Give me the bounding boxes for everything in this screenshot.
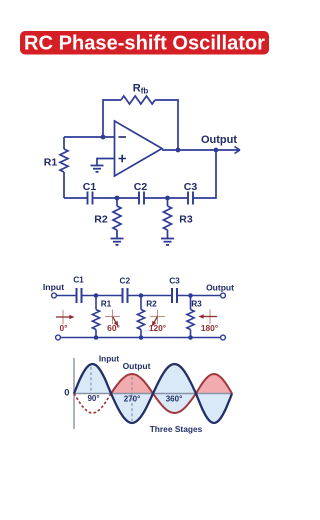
svg-text:90°: 90° <box>87 394 99 403</box>
svg-text:60°: 60° <box>107 323 120 333</box>
svg-text:0: 0 <box>64 388 69 399</box>
svg-text:C2: C2 <box>119 276 130 286</box>
svg-text:120°: 120° <box>149 323 166 333</box>
svg-text:Output: Output <box>201 134 237 146</box>
svg-text:180°: 180° <box>201 323 218 333</box>
svg-text:R2: R2 <box>146 299 157 309</box>
svg-text:Input: Input <box>99 354 120 364</box>
svg-text:RC Phase-shift Oscillator: RC Phase-shift Oscillator <box>24 33 265 55</box>
svg-text:C1: C1 <box>73 275 84 285</box>
svg-text:Input: Input <box>43 282 64 292</box>
svg-text:270°: 270° <box>124 395 141 404</box>
svg-text:C1: C1 <box>83 181 97 193</box>
svg-text:C2: C2 <box>134 181 148 193</box>
svg-text:Output: Output <box>206 283 234 293</box>
svg-text:C3: C3 <box>169 276 180 286</box>
svg-text:R1: R1 <box>101 299 112 309</box>
svg-text:R3: R3 <box>191 299 202 309</box>
svg-text:C3: C3 <box>184 181 198 193</box>
svg-text:R2: R2 <box>94 214 108 226</box>
svg-text:0°: 0° <box>59 323 67 333</box>
svg-text:Three Stages: Three Stages <box>150 424 203 434</box>
svg-text:360°: 360° <box>166 395 183 404</box>
svg-text:Output: Output <box>123 361 151 371</box>
svg-text:R1: R1 <box>44 157 58 169</box>
svg-text:R3: R3 <box>179 214 193 226</box>
